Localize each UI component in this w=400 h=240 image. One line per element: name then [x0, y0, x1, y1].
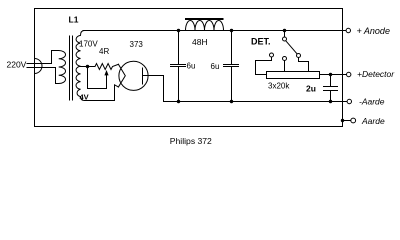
switch contact wire middle: [284, 61, 286, 72]
switch contact middle: [283, 57, 287, 61]
svg-text:DET.: DET.: [251, 36, 271, 46]
svg-text:+Detector: +Detector: [357, 69, 395, 79]
choke 48H core bar: [186, 18, 223, 20]
wire bottom rail B-: [164, 101, 348, 103]
svg-text:Aarde: Aarde: [361, 116, 385, 126]
wire top rail B+: [83, 30, 346, 32]
switch pole stub: [284, 31, 286, 38]
junction node dots: [86, 65, 89, 68]
svg-text:L1: L1: [69, 14, 79, 24]
switch contact wire left: [256, 57, 272, 75]
capacitor C3 2u: [324, 75, 338, 102]
resistor 4R (rheostat body): [95, 64, 118, 70]
terminal Aarde: [351, 118, 356, 123]
svg-text:4R: 4R: [99, 47, 109, 56]
svg-text:6u: 6u: [187, 62, 196, 71]
wiper arrow of 4R: [106, 75, 108, 89]
svg-text:6u: 6u: [211, 62, 220, 71]
potentiometer 3x20k body: [267, 72, 320, 79]
transformer primary winding: [59, 51, 66, 84]
wire mains lower: [27, 68, 59, 84]
choke 48H winding: [186, 21, 224, 31]
svg-text:2u: 2u: [306, 83, 316, 93]
terminal -Aarde: [347, 99, 351, 103]
capacitor C2 6u right: [224, 31, 239, 102]
switch contact left: [270, 53, 274, 57]
svg-text:Philips 372: Philips 372: [170, 136, 212, 146]
wiper arrowhead: [104, 70, 108, 75]
wire aarde terminal stub: [343, 120, 352, 122]
transformer secondary winding L1: [76, 31, 84, 101]
terminal + Anode: [346, 28, 350, 32]
wire secondary 170V tap to 4R: [81, 66, 96, 68]
switch pole contact: [283, 37, 287, 41]
svg-text:+ Anode: + Anode: [357, 26, 390, 36]
tube V1 373 envelope: [119, 61, 148, 90]
svg-text:4V: 4V: [80, 92, 89, 101]
wire secondary 4V bottom lead: [85, 85, 119, 101]
capacitor C1 6u left: [171, 31, 186, 102]
wire anode to rail: [143, 76, 164, 102]
svg-text:48H: 48H: [192, 37, 208, 47]
svg-text:-Aarde: -Aarde: [359, 97, 385, 107]
transformer core: [70, 36, 73, 100]
switch contact wire right: [299, 58, 309, 72]
svg-text:170V: 170V: [79, 40, 98, 49]
svg-text:3x20k: 3x20k: [268, 81, 290, 90]
wire tap branch to wiper: [88, 67, 107, 89]
switch contact right: [297, 54, 301, 58]
mains grommet arc: [35, 59, 43, 74]
svg-text:220V: 220V: [7, 60, 27, 70]
svg-text:373: 373: [130, 40, 144, 49]
switch blade: [286, 41, 297, 54]
wire mains upper: [27, 51, 59, 64]
terminal +Detector: [347, 72, 351, 76]
wire pot to detector terminal: [320, 74, 347, 76]
tube filament: [118, 64, 125, 87]
enclosure box (chassis): [35, 9, 343, 127]
tube anode plate: [142, 68, 144, 84]
